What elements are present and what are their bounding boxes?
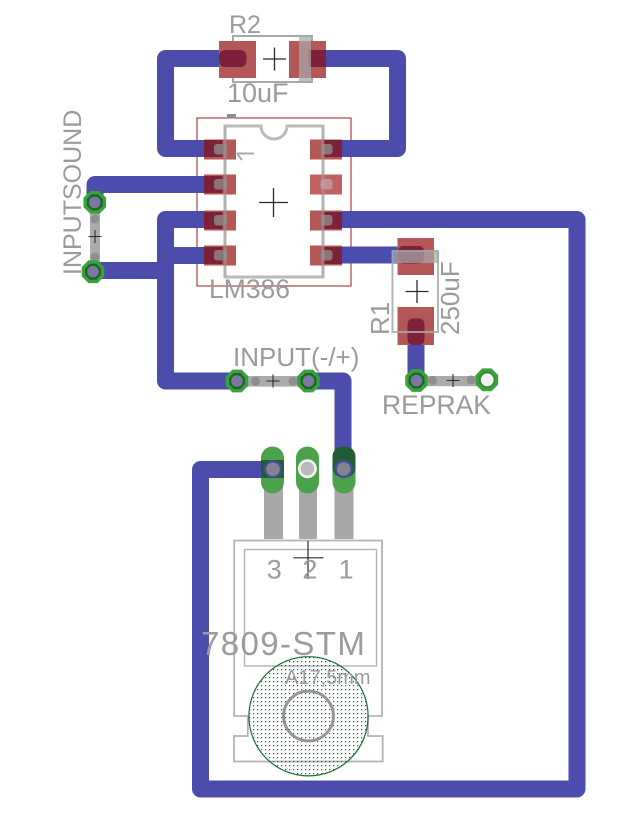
regulator U2 pad 2	[296, 447, 319, 494]
regulator U2 origin cross	[294, 541, 324, 579]
svg-text:2: 2	[302, 555, 317, 585]
capacitor R1 pad1 copper overlap	[398, 246, 424, 264]
capacitor R2 origin cross	[263, 48, 286, 71]
via INPUTSOUND pad2	[82, 260, 105, 283]
IC U1 pad pin8	[310, 140, 342, 160]
wire branch to INPUTSOUND pad2	[94, 262, 166, 279]
regulator U2 pin lead 2	[299, 482, 317, 539]
svg-text:A17,5mm: A17,5mm	[285, 667, 371, 689]
connector INPUTSOUND origin cross	[89, 230, 102, 243]
via REPRAK pad2	[476, 368, 499, 391]
IC U1 pad pin3	[204, 211, 236, 231]
capacitor R1 silkscreen box	[393, 251, 439, 332]
wire R1 pad2 to REPRAK pad1	[408, 327, 425, 380]
wire power loop U1 pin6 to U2 pin3	[201, 220, 578, 790]
wire branch to U1 pin4	[166, 247, 215, 264]
IC U1 pad holes right	[321, 144, 333, 155]
regulator U2 pin lead 3	[264, 482, 283, 539]
capacitor R2 pad 1	[219, 41, 256, 78]
via INPUT pad2	[297, 370, 320, 393]
wire INPUT pad2 to U2 pin1	[309, 381, 344, 470]
IC U1 pad pin1	[204, 140, 236, 160]
capacitor R1 polarity bar	[393, 252, 440, 264]
IC U1 body outline	[225, 126, 323, 277]
svg-text:R2: R2	[229, 11, 261, 39]
via INPUTSOUND pad1	[84, 191, 107, 214]
IC U1 body edges over pads	[225, 126, 323, 277]
svg-text:LM386: LM386	[209, 274, 290, 304]
capacitor R2 silkscreen box	[233, 36, 312, 82]
IC U1 origin cross	[259, 188, 288, 217]
IC U1 pin1 arrow	[237, 154, 255, 161]
wire U1 pin5 to R1 pad1	[332, 247, 415, 264]
via REPRAK pad1	[405, 369, 428, 392]
capacitor R2 polarity bar	[299, 36, 311, 82]
connector INPUT origin cross	[267, 375, 280, 388]
svg-text:7809-STM: 7809-STM	[201, 625, 366, 662]
regulator U2 mounting circle dotted	[249, 657, 368, 776]
IC U1 pad pin6	[310, 211, 342, 231]
svg-text:3: 3	[267, 555, 282, 585]
capacitor R2 pad 2	[289, 41, 326, 78]
connector INPUTSOUND silkscreen bar	[90, 202, 100, 272]
connector REPRAK pin dot 2	[467, 376, 476, 385]
regulator U2 body outline	[234, 541, 383, 762]
connector REPRAK pin dot 1	[428, 376, 437, 385]
IC U1 pad pin7	[310, 175, 342, 195]
wire R2 pad2 to U1 pin8	[317, 59, 398, 149]
IC U1 pad pin4	[204, 246, 236, 266]
via INPUT pad1	[226, 370, 249, 393]
svg-text:INPUTSOUND: INPUTSOUND	[59, 110, 87, 275]
connector INPUT pin dot 1	[251, 377, 260, 386]
regulator U2 pad 1	[333, 447, 356, 494]
wire U1 pin2 to INPUTSOUND pad1	[95, 185, 214, 203]
connector REPRAK silkscreen bar	[417, 376, 488, 386]
svg-text:R1: R1	[365, 302, 395, 335]
svg-text:10uF: 10uF	[227, 78, 289, 108]
wire R2 pad1 to U1 pin1	[166, 59, 238, 149]
IC U1 silkscreen tick	[227, 114, 236, 119]
regulator U2 pin lead 1	[335, 482, 354, 539]
connector INPUT silkscreen bar	[237, 376, 309, 387]
regulator U2 pad 3	[261, 447, 284, 494]
connector INPUT pin dot 2	[289, 377, 298, 386]
regulator U2 hole ring	[284, 691, 334, 741]
wire U1 pin3 to INPUT pad1	[166, 220, 238, 382]
capacitor R2 pad2 copper overlap	[309, 50, 327, 67]
capacitor R1 pad 2	[398, 307, 435, 345]
regulator U2 inner outline	[245, 550, 377, 667]
connector INPUTSOUND pin dot 1	[91, 215, 100, 224]
capacitor R1 pad2 copper overlap	[408, 319, 425, 346]
connector INPUTSOUND pin dot 2	[91, 253, 100, 262]
capacitor R2 pad1 copper overlap	[219, 50, 247, 67]
svg-text:REPRAK: REPRAK	[382, 390, 491, 420]
IC U1 pad pin2	[204, 175, 236, 195]
svg-text:1: 1	[338, 555, 353, 585]
capacitor R1 pad 1	[398, 238, 435, 275]
svg-text:250uF: 250uF	[435, 261, 465, 335]
connector REPRAK origin cross	[447, 374, 460, 387]
capacitor R1 origin cross	[406, 280, 429, 303]
IC U1 pad pin5	[310, 246, 342, 266]
IC U1 pad holes left	[214, 144, 228, 155]
IC U1 courtyard red box	[197, 118, 351, 286]
svg-text:INPUT(-/+): INPUT(-/+)	[233, 342, 359, 372]
